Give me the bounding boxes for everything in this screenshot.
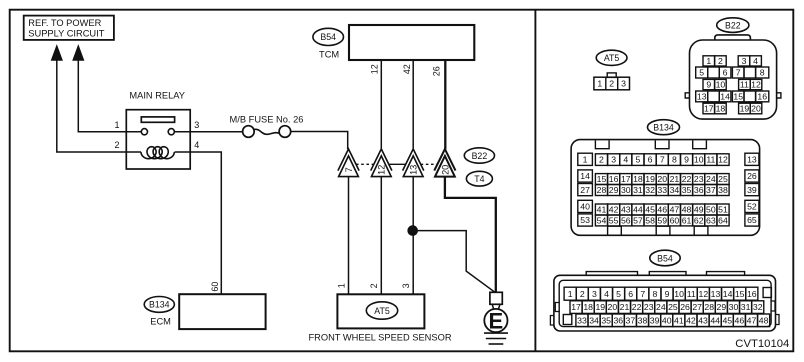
svg-text:2: 2: [369, 283, 379, 288]
ref-to-power-supply box: [24, 16, 114, 40]
svg-text:37: 37: [706, 185, 716, 195]
svg-text:11: 11: [706, 155, 715, 165]
svg-text:8: 8: [672, 155, 677, 165]
relay MAIN RELAY: [126, 91, 190, 169]
svg-text:20: 20: [657, 174, 667, 184]
B134 pins 15-25: [595, 174, 729, 185]
svg-text:39: 39: [747, 185, 757, 195]
wire triangle 12 to sensor pin 2: [380, 177, 382, 295]
connector view B22 oval: [717, 18, 749, 33]
svg-text:B134: B134: [149, 300, 170, 310]
svg-text:60: 60: [670, 216, 680, 226]
connector view B22 body: [685, 35, 781, 119]
svg-text:26: 26: [431, 66, 441, 76]
svg-text:T4: T4: [474, 174, 484, 184]
svg-text:59: 59: [657, 216, 667, 226]
svg-text:38: 38: [718, 185, 728, 195]
svg-text:4: 4: [194, 140, 199, 150]
svg-text:34: 34: [589, 315, 599, 325]
svg-text:20: 20: [440, 165, 450, 175]
svg-text:17: 17: [704, 104, 714, 114]
svg-text:34: 34: [670, 185, 680, 195]
svg-text:CVT10104: CVT10104: [735, 338, 789, 350]
svg-text:32: 32: [645, 185, 655, 195]
relay contact bar: [141, 117, 174, 122]
svg-text:35: 35: [682, 185, 692, 195]
svg-text:4: 4: [623, 155, 628, 165]
svg-text:B54: B54: [320, 32, 336, 42]
svg-text:14: 14: [720, 92, 730, 102]
svg-text:18: 18: [716, 104, 726, 114]
svg-text:2: 2: [609, 79, 614, 89]
svg-text:M/B FUSE No. 26: M/B FUSE No. 26: [230, 115, 304, 125]
svg-text:44: 44: [633, 205, 643, 215]
connector terminal triangle 7: [338, 149, 359, 177]
svg-text:10: 10: [694, 155, 704, 165]
svg-text:41: 41: [597, 205, 607, 215]
B134 right column pins 13,26,39,52,65: [745, 153, 759, 226]
wire TCM pin 26 down (bold ground circuit): [444, 60, 446, 149]
svg-text:3: 3: [621, 79, 626, 89]
svg-text:53: 53: [580, 215, 590, 225]
svg-text:2: 2: [580, 289, 585, 299]
svg-text:47: 47: [747, 315, 757, 325]
svg-text:9: 9: [684, 155, 689, 165]
B54 blank key slot right of row 1: [763, 288, 771, 298]
svg-text:E: E: [489, 308, 504, 333]
wire relay pin3 to fuse: [174, 131, 242, 133]
power arrow right: [73, 46, 84, 61]
svg-text:14: 14: [723, 289, 733, 299]
svg-text:29: 29: [717, 302, 727, 312]
svg-text:15: 15: [733, 92, 743, 102]
svg-text:49: 49: [694, 205, 704, 215]
svg-text:54: 54: [597, 216, 607, 226]
relay coil: [141, 147, 175, 159]
wire TCM pin 42 down: [412, 60, 414, 149]
branch wire junction to ground terminal: [413, 231, 495, 293]
svg-text:20: 20: [751, 104, 761, 114]
TCM B54 box: [349, 25, 474, 60]
relay contact terminal pin 1: [141, 129, 147, 135]
svg-text:3: 3: [611, 155, 616, 165]
svg-text:19: 19: [645, 174, 655, 184]
svg-text:40: 40: [662, 315, 672, 325]
svg-text:42: 42: [609, 205, 619, 215]
svg-text:16: 16: [609, 174, 619, 184]
svg-text:47: 47: [670, 205, 680, 215]
svg-text:29: 29: [609, 185, 619, 195]
svg-text:18: 18: [633, 174, 643, 184]
svg-text:13: 13: [711, 289, 721, 299]
B54 pins 1-16: [564, 287, 758, 300]
svg-text:21: 21: [670, 174, 680, 184]
svg-text:43: 43: [621, 205, 631, 215]
svg-text:ECM: ECM: [150, 316, 171, 326]
svg-text:22: 22: [632, 302, 642, 312]
svg-text:B134: B134: [653, 123, 674, 133]
svg-text:46: 46: [735, 315, 745, 325]
svg-text:4: 4: [604, 289, 609, 299]
connector oval B22: [464, 148, 494, 163]
svg-text:38: 38: [638, 315, 648, 325]
svg-text:AT5: AT5: [374, 306, 390, 316]
svg-text:14: 14: [580, 171, 590, 181]
ground hatching: [484, 333, 508, 344]
ground terminal square: [490, 292, 502, 304]
panel divider: [534, 10, 536, 351]
svg-text:4: 4: [753, 56, 758, 66]
svg-text:5: 5: [616, 289, 621, 299]
svg-text:17: 17: [571, 302, 581, 312]
wire relay pin 4 to ECM pin 60: [190, 152, 221, 294]
svg-text:15: 15: [735, 289, 745, 299]
svg-text:FRONT WHEEL SPEED SENSOR: FRONT WHEEL SPEED SENSOR: [308, 332, 451, 342]
svg-text:42: 42: [686, 315, 696, 325]
svg-text:7: 7: [736, 68, 741, 78]
svg-text:12: 12: [377, 165, 387, 175]
svg-text:12: 12: [370, 64, 380, 74]
svg-text:1: 1: [597, 79, 602, 89]
svg-text:40: 40: [580, 202, 590, 212]
svg-text:33: 33: [577, 315, 587, 325]
svg-text:52: 52: [747, 202, 757, 212]
svg-text:30: 30: [621, 185, 631, 195]
svg-text:31: 31: [741, 302, 751, 312]
wire triangle 13 to sensor pin 3: [412, 177, 414, 295]
B22 pins row 9-12: [703, 79, 762, 89]
svg-text:28: 28: [597, 185, 607, 195]
svg-text:9: 9: [706, 80, 711, 90]
svg-text:50: 50: [706, 205, 716, 215]
svg-text:55: 55: [609, 216, 619, 226]
svg-text:16: 16: [747, 289, 757, 299]
fuse M/B FUSE No. 26: [230, 115, 304, 138]
connector oval AT5 in sensor: [366, 302, 397, 319]
svg-text:B22: B22: [725, 20, 741, 30]
connector view B134 oval: [648, 120, 680, 135]
svg-text:23: 23: [644, 302, 654, 312]
svg-text:SUPPLY CIRCUIT: SUPPLY CIRCUIT: [28, 29, 104, 39]
svg-text:2: 2: [599, 155, 604, 165]
svg-text:2: 2: [718, 56, 723, 66]
svg-text:12: 12: [699, 289, 709, 299]
svg-text:45: 45: [645, 205, 655, 215]
svg-text:63: 63: [706, 216, 716, 226]
svg-text:1: 1: [568, 289, 573, 299]
svg-text:13: 13: [747, 155, 757, 165]
svg-text:25: 25: [718, 174, 728, 184]
relay contact terminal pin 3: [168, 129, 174, 135]
svg-text:3: 3: [592, 289, 597, 299]
svg-text:31: 31: [633, 185, 643, 195]
svg-text:20: 20: [608, 302, 618, 312]
svg-text:1: 1: [336, 283, 346, 288]
connector view AT5 oval: [596, 50, 627, 65]
svg-text:B22: B22: [472, 151, 488, 161]
svg-text:12: 12: [751, 80, 761, 90]
svg-text:39: 39: [650, 315, 660, 325]
svg-text:19: 19: [740, 104, 750, 114]
svg-text:3: 3: [194, 120, 199, 130]
svg-text:10: 10: [674, 289, 684, 299]
connector view B54 body: [550, 272, 779, 331]
ground neck: [492, 304, 500, 309]
svg-text:7: 7: [660, 155, 665, 165]
link triangles 12-13: [389, 163, 406, 165]
B134 pins 54-64: [595, 215, 729, 226]
svg-text:7: 7: [640, 289, 645, 299]
wire from right arrow to relay pin 1: [78, 59, 141, 132]
svg-text:1: 1: [583, 155, 588, 165]
svg-text:65: 65: [747, 215, 757, 225]
svg-text:33: 33: [657, 185, 667, 195]
svg-text:3: 3: [401, 283, 411, 288]
svg-text:6: 6: [628, 289, 633, 299]
svg-text:6: 6: [723, 68, 728, 78]
svg-text:22: 22: [682, 174, 692, 184]
svg-text:42: 42: [402, 64, 412, 74]
connector terminal triangle 13: [403, 149, 424, 177]
svg-text:26: 26: [747, 171, 757, 181]
svg-text:27: 27: [692, 302, 702, 312]
B22 pins row 13-16: [696, 91, 769, 102]
svg-text:56: 56: [621, 216, 631, 226]
connector terminal triangle 12: [371, 149, 392, 177]
connector view B134 body: [571, 140, 760, 236]
svg-text:REF. TO POWER: REF. TO POWER: [28, 18, 101, 28]
junction node on sensor pin 3 wire: [408, 226, 418, 236]
wire from left arrow to relay pin 2 row: [57, 59, 127, 152]
svg-text:6: 6: [648, 155, 653, 165]
B134 pins 28-38: [595, 185, 729, 196]
svg-text:13: 13: [697, 92, 707, 102]
svg-text:18: 18: [583, 302, 593, 312]
B22 pins row 17-20: [703, 103, 762, 114]
power arrow left: [51, 46, 62, 61]
svg-text:23: 23: [694, 174, 704, 184]
bold ground wire from triangle 20 to ground terminal: [445, 177, 496, 293]
wire out of relay coil pin 4: [175, 151, 191, 153]
svg-text:15: 15: [597, 174, 607, 184]
svg-text:36: 36: [694, 185, 704, 195]
wire fuse to triangle 7: [291, 132, 348, 150]
svg-text:27: 27: [580, 185, 590, 195]
svg-text:10: 10: [716, 80, 726, 90]
svg-text:MAIN RELAY: MAIN RELAY: [129, 91, 185, 101]
svg-text:57: 57: [633, 216, 643, 226]
connector view AT5 pinout: [594, 73, 630, 90]
svg-text:19: 19: [595, 302, 605, 312]
ECM B134 box: [179, 294, 265, 329]
svg-text:8: 8: [653, 289, 658, 299]
svg-text:AT5: AT5: [604, 53, 620, 63]
svg-text:51: 51: [718, 205, 728, 215]
wire triangle 7 to sensor pin 1: [348, 177, 350, 295]
svg-text:44: 44: [710, 315, 720, 325]
svg-text:24: 24: [706, 174, 716, 184]
connector view B54 oval: [650, 250, 680, 266]
svg-text:17: 17: [621, 174, 631, 184]
svg-text:43: 43: [698, 315, 708, 325]
svg-text:8: 8: [760, 68, 765, 78]
svg-text:28: 28: [704, 302, 714, 312]
connector terminal triangle 20: [434, 149, 455, 177]
dashed link triangles 13-20: [421, 163, 438, 165]
svg-text:58: 58: [645, 216, 655, 226]
front wheel speed sensor box: [337, 294, 424, 328]
svg-text:45: 45: [722, 315, 732, 325]
svg-text:TCM: TCM: [319, 49, 339, 59]
svg-text:9: 9: [665, 289, 670, 299]
B54 pins 17-32: [570, 301, 764, 314]
B134 pins 41-51: [595, 204, 729, 215]
svg-text:26: 26: [680, 302, 690, 312]
svg-text:35: 35: [601, 315, 611, 325]
svg-text:5: 5: [636, 155, 641, 165]
svg-text:B54: B54: [657, 253, 673, 263]
svg-text:3: 3: [742, 56, 747, 66]
dashed link triangles 7-12: [356, 163, 374, 165]
svg-text:37: 37: [626, 315, 636, 325]
B54 pins 33-48: [576, 314, 770, 327]
B134 pins 2-12: [595, 154, 729, 166]
svg-text:36: 36: [613, 315, 623, 325]
svg-text:12: 12: [718, 155, 728, 165]
svg-text:7: 7: [344, 167, 354, 172]
svg-text:30: 30: [729, 302, 739, 312]
svg-text:60: 60: [210, 282, 220, 292]
wire into relay coil pin 2: [126, 151, 141, 153]
B22 pins row 1-4: [703, 56, 761, 66]
connector oval B54 at TCM: [313, 28, 344, 45]
svg-text:1: 1: [114, 120, 119, 130]
svg-text:1: 1: [706, 56, 711, 66]
svg-text:13: 13: [409, 165, 419, 175]
svg-text:61: 61: [682, 216, 692, 226]
svg-text:11: 11: [740, 80, 749, 90]
svg-text:32: 32: [753, 302, 763, 312]
svg-text:21: 21: [620, 302, 630, 312]
ground E circle: [484, 308, 507, 333]
svg-text:25: 25: [668, 302, 678, 312]
wire TCM pin 12 down: [380, 60, 382, 149]
svg-text:5: 5: [699, 68, 704, 78]
svg-text:48: 48: [759, 315, 769, 325]
connector oval T4: [466, 171, 492, 186]
svg-text:62: 62: [694, 216, 704, 226]
connector oval B134 at ECM: [144, 297, 174, 313]
svg-text:16: 16: [757, 92, 767, 102]
svg-text:2: 2: [114, 140, 119, 150]
B54 blank key slot left of row 3: [563, 315, 572, 325]
B134 left column pins 1,14,27,40,53: [578, 153, 593, 226]
svg-text:48: 48: [682, 205, 692, 215]
B22 pins row 5-8: [696, 67, 769, 78]
svg-text:41: 41: [674, 315, 684, 325]
svg-text:64: 64: [718, 216, 728, 226]
svg-text:24: 24: [656, 302, 666, 312]
svg-text:11: 11: [687, 289, 696, 299]
svg-text:46: 46: [657, 205, 667, 215]
